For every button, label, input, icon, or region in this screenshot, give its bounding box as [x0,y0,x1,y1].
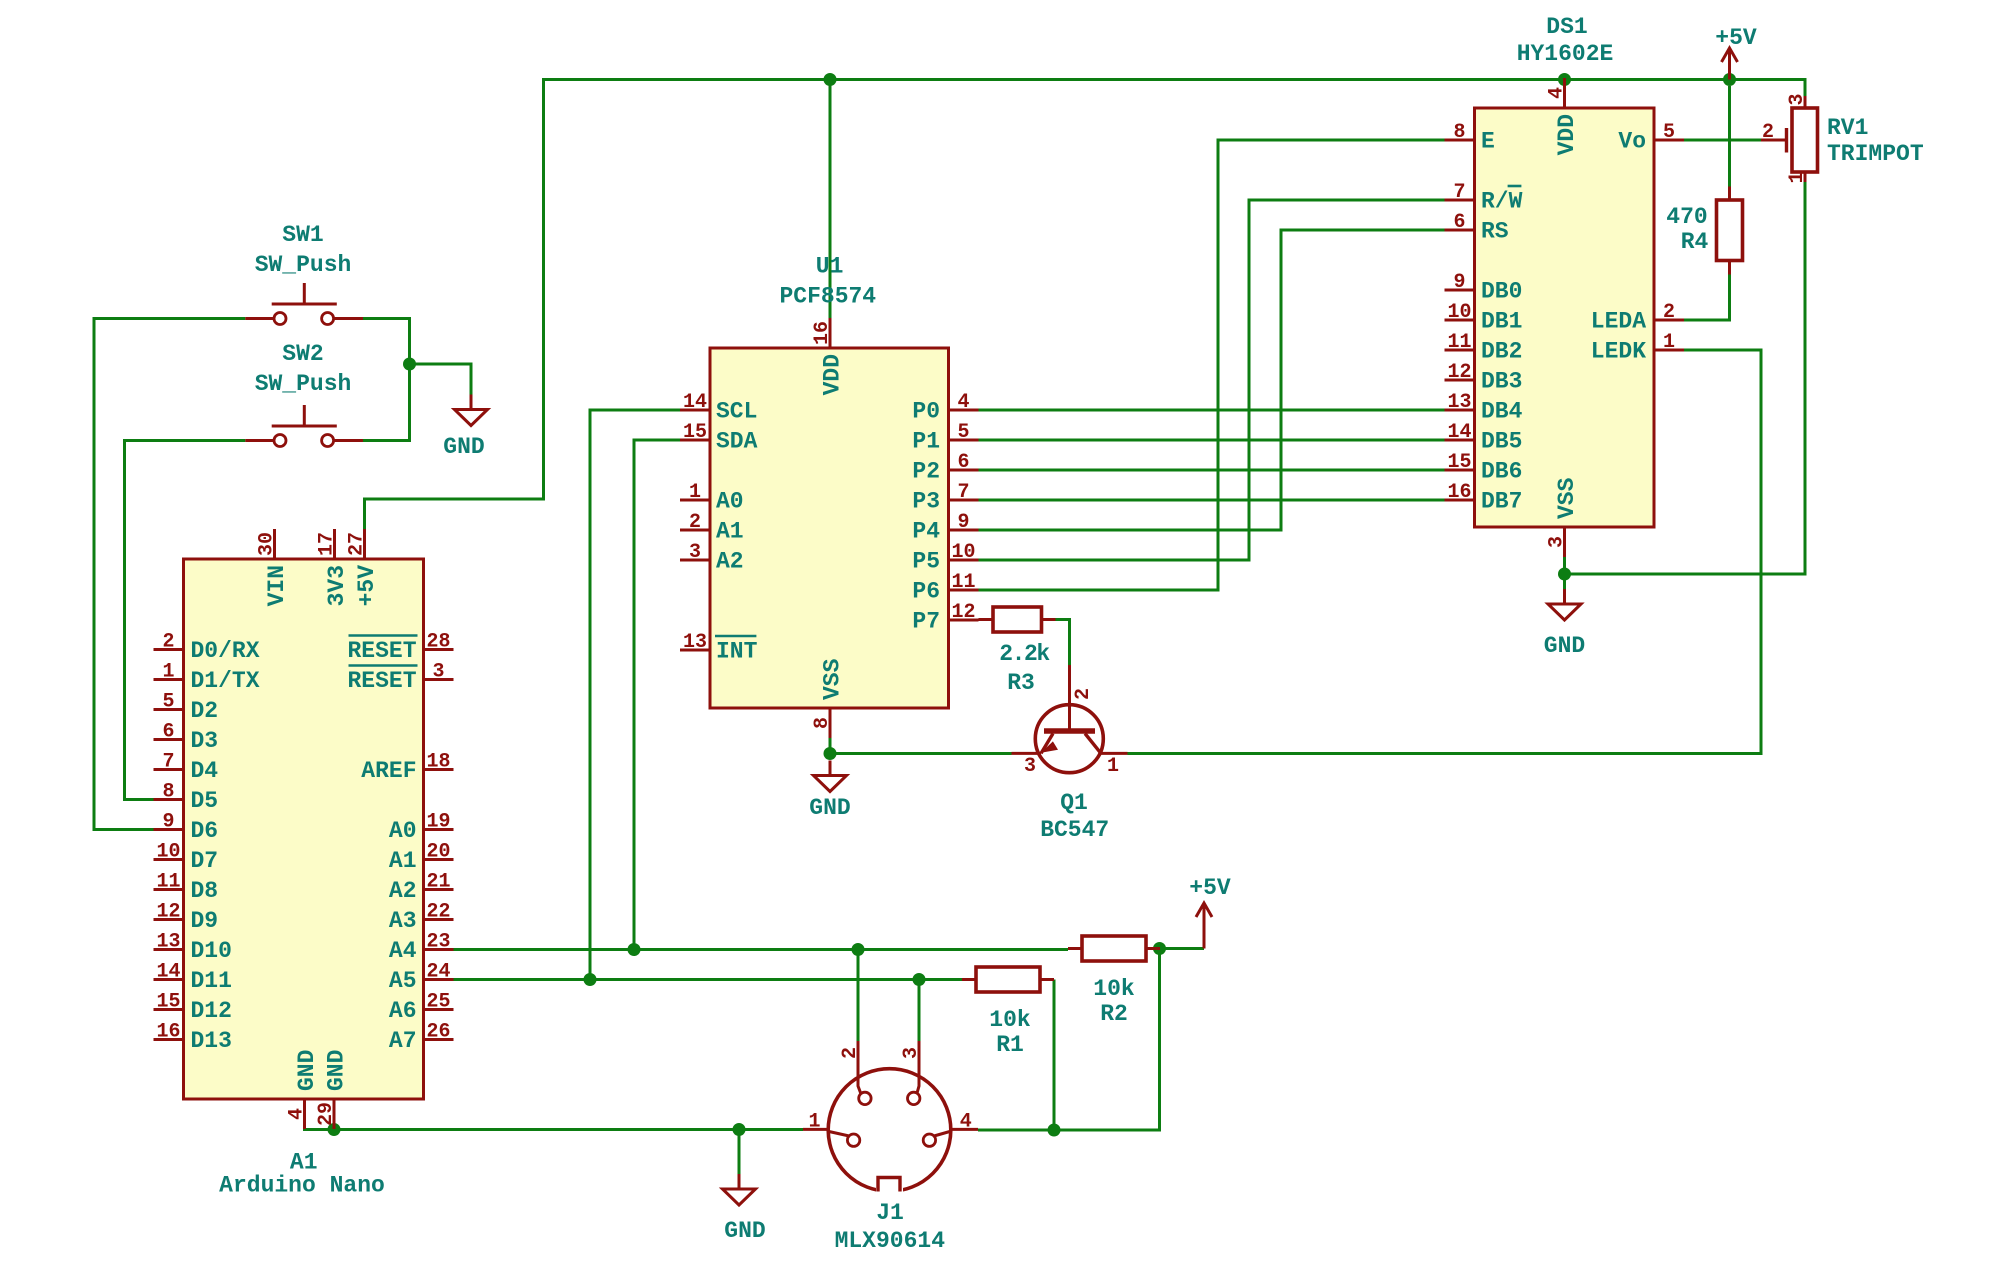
svg-text:3: 3 [1786,93,1809,105]
svg-text:SW2: SW2 [282,341,323,367]
wire J1 pin2 drop from A4 net [857,950,860,1042]
wire U1 VSS junction to Q1 emitter [830,752,1012,755]
resistor R4 470 [1666,187,1742,275]
svg-text:VDD: VDD [819,354,845,395]
DS1 pin 14 (DB5) [1445,439,1475,442]
A1 pin 5 (D2) [154,708,184,711]
wire SW2 right pin to GND junction [363,364,410,441]
svg-text:D2: D2 [191,698,219,724]
wire +5V rail from Arduino +5V pin up and across the top [365,80,1806,530]
A1 pin 14 (D11) [154,978,184,981]
svg-text:3: 3 [900,1047,923,1059]
svg-text:LEDA: LEDA [1591,309,1646,335]
svg-text:RV1: RV1 [1827,115,1868,141]
wire P5 to R/W [979,200,1445,560]
J1 pin 2 [858,1041,861,1094]
trimmer potentiometer RV1 TRIMPOT [1761,93,1924,183]
svg-text:GND: GND [294,1050,320,1091]
svg-text:A2: A2 [716,549,744,575]
+5V symbol bottom right [1203,903,1206,949]
svg-text:TRIMPOT: TRIMPOT [1827,141,1924,167]
svg-text:12: 12 [1447,361,1471,384]
svg-text:GND: GND [724,1218,765,1244]
DS1 pin 8 (E) [1445,139,1475,142]
svg-text:P6: P6 [912,579,940,605]
svg-text:D9: D9 [191,908,219,934]
svg-text:P3: P3 [912,489,940,515]
wire U1 SDA to A4 net [634,440,680,950]
svg-text:R2: R2 [1100,1001,1128,1027]
wire P4 to RS [979,230,1445,530]
A1 pin 18 (AREF) [424,768,454,771]
svg-text:2: 2 [1072,688,1095,700]
svg-text:7: 7 [1453,181,1465,204]
svg-text:VSS: VSS [1554,477,1580,519]
svg-text:VSS: VSS [819,658,845,700]
svg-text:D0/RX: D0/RX [191,638,260,664]
U1 pin 10 (P5) [949,559,979,562]
svg-text:2.2k: 2.2k [999,641,1050,667]
U1 pin 6 (P2) [949,469,979,472]
U1 pin 2 (A1) [680,529,710,532]
A1 pin 4 (GND) bottom [303,1099,306,1129]
U1 pin 7 (P3) [949,499,979,502]
svg-text:A1: A1 [389,848,417,874]
A1 pin 16 (D13) [154,1038,184,1041]
A1 pin 9 (D6) [154,828,184,831]
svg-text:4: 4 [1546,87,1569,99]
svg-text:D13: D13 [191,1028,232,1054]
svg-text:18: 18 [426,751,450,774]
ground symbol near switches [470,395,473,410]
svg-text:DB3: DB3 [1481,369,1522,395]
A1 pin 10 (D7) [154,858,184,861]
svg-text:27: 27 [346,532,369,556]
wire U1 VDD to +5V rail [829,80,832,319]
junction +5V symbol / RV1 branch [1723,73,1736,86]
svg-text:P4: P4 [912,519,940,545]
svg-text:29: 29 [315,1102,338,1126]
wire P6 to E [979,140,1445,590]
wire DS1 Vo to RV1 wiper [1684,139,1761,142]
wire P1 to DB5 [979,439,1445,442]
A1 pin 23 (A4) [424,948,454,951]
svg-text:DB5: DB5 [1481,429,1522,455]
svg-text:14: 14 [156,961,180,984]
wire DS1 VDD to +5V rail [1563,80,1566,87]
svg-text:5: 5 [1663,121,1675,144]
svg-text:SCL: SCL [716,399,757,425]
junction SDA on A4 net [628,943,641,956]
wire GND symbol tap below GND net [738,1130,741,1175]
svg-text:D3: D3 [191,728,219,754]
svg-text:2: 2 [689,511,701,534]
wire P0 to DB4 [979,409,1445,412]
svg-text:RESET: RESET [347,638,416,664]
svg-text:A0: A0 [389,818,417,844]
svg-text:INT: INT [716,639,758,665]
svg-text:D8: D8 [191,878,219,904]
ground symbol below DS1 VSS [1563,589,1566,604]
svg-text:AREF: AREF [361,758,416,784]
svg-text:12: 12 [156,901,180,924]
junction J1 pin2 on A4 net [852,943,865,956]
U1 pin 3 (A2) [680,559,710,562]
svg-text:DB6: DB6 [1481,459,1522,485]
svg-text:8: 8 [1453,121,1465,144]
svg-text:1: 1 [162,661,174,684]
svg-text:3: 3 [689,541,701,564]
svg-text:13: 13 [156,931,180,954]
svg-text:P0: P0 [912,399,940,425]
svg-text:VDD: VDD [1554,114,1580,155]
svg-text:A3: A3 [389,908,417,934]
svg-text:SW_Push: SW_Push [255,371,352,397]
wire DS1 VSS junction to GND symbol [1563,574,1566,589]
svg-text:GND: GND [809,795,850,821]
svg-text:8: 8 [162,781,174,804]
A1 pin 29 (GND) bottom [333,1099,336,1129]
A1 pin 11 (D8) [154,888,184,891]
A1 pin 22 (A3) [424,918,454,921]
junction U1 VDD / +5V rail [824,73,837,86]
A1 pin 19 (A0) [424,828,454,831]
DS1 pin 10 (DB1) [1445,319,1475,322]
DS1 pin 11 (DB2) [1445,349,1475,352]
U1 pin 4 (P0) [949,409,979,412]
svg-text:1: 1 [1107,755,1119,778]
svg-text:J1: J1 [876,1200,904,1226]
transistor Q1 BC547 NPN [1012,665,1128,843]
svg-text:VIN: VIN [264,565,290,606]
DS1 pin 16 (DB7) [1445,499,1475,502]
svg-text:4: 4 [960,1111,972,1134]
svg-text:P5: P5 [912,549,940,575]
svg-text:LEDK: LEDK [1591,339,1646,365]
svg-text:15: 15 [683,421,707,444]
svg-text:A4: A4 [389,938,417,964]
wire +5V rail down to R4 [1728,86,1731,187]
J1 pin 4 [950,1128,978,1131]
svg-text:GND: GND [323,1050,349,1091]
DS1 pin 2 (LEDA) [1654,319,1684,322]
junction Arduino GND pins [328,1123,341,1136]
junction R1 on J1 pin4 net [1048,1124,1061,1137]
junction SW1/SW2 to GND [403,358,416,371]
svg-text:4: 4 [957,391,969,414]
wire RV1 pin1 down to DS1 VSS net [1565,182,1806,574]
svg-text:30: 30 [256,532,279,556]
svg-text:12: 12 [951,601,975,624]
wire U1 VSS down to junction [829,738,832,754]
wire SW1 left pin to Arduino D6 [94,319,245,830]
svg-text:A6: A6 [389,998,417,1024]
svg-text:D10: D10 [191,938,232,964]
svg-text:22: 22 [426,901,450,924]
DS1 pin 3 (VSS) bottom [1563,527,1566,557]
DS1 pin 1 (LEDK) [1654,349,1684,352]
svg-text:10: 10 [951,541,975,564]
svg-text:HY1602E: HY1602E [1517,41,1614,67]
svg-text:SW_Push: SW_Push [255,252,352,278]
junction J1 pin3 on A5 net [913,973,926,986]
svg-text:GND: GND [1544,633,1585,659]
svg-text:16: 16 [1447,481,1471,504]
svg-text:11: 11 [951,571,975,594]
svg-text:3V3: 3V3 [324,565,350,606]
svg-text:11: 11 [1447,331,1471,354]
svg-text:D6: D6 [191,818,219,844]
A1 pin 25 (A6) [424,1008,454,1011]
svg-text:9: 9 [957,511,969,534]
svg-text:2: 2 [1663,301,1675,324]
svg-text:16: 16 [156,1021,180,1044]
svg-text:RESET: RESET [347,668,416,694]
A1 pin 7 (D4) [154,768,184,771]
svg-text:P2: P2 [912,459,940,485]
junction R2 / +5V / J1 pin4 net [1153,942,1166,955]
DS1 pin 6 (RS) [1445,229,1475,232]
junction GND symbol on GND net [733,1123,746,1136]
resistor R1 10k [962,967,1054,1058]
svg-text:D12: D12 [191,998,232,1024]
svg-text:D11: D11 [191,968,232,994]
U1 pin 15 (SDA) [680,439,710,442]
A1 pin 13 (D10) [154,948,184,951]
wire SW2 left pin to Arduino D5 [125,441,246,800]
U1 pin 14 (SCL) [680,409,710,412]
svg-text:15: 15 [156,991,180,1014]
svg-text:DB2: DB2 [1481,339,1522,365]
junction DS1 VDD / +5V rail [1558,73,1571,86]
A1 pin 20 (A1) [424,858,454,861]
svg-text:MLX90614: MLX90614 [835,1228,946,1254]
svg-text:2: 2 [162,631,174,654]
DS1 pin 15 (DB6) [1445,469,1475,472]
svg-text:14: 14 [1447,421,1471,444]
svg-text:R3: R3 [1007,670,1035,696]
svg-text:25: 25 [426,991,450,1014]
svg-text:DB1: DB1 [1481,309,1522,335]
DS1 pin 12 (DB3) [1445,379,1475,382]
A1 pin 12 (D9) [154,918,184,921]
svg-text:10k: 10k [1093,976,1135,1002]
A1 pin 3 (RESET) [424,678,454,681]
resistor R3 2.2k [979,607,1056,696]
A1 pin 8 (D5) [154,798,184,801]
svg-text:2: 2 [1762,121,1774,144]
svg-text:+5V: +5V [1715,25,1757,51]
svg-text:6: 6 [162,721,174,744]
svg-text:R4: R4 [1681,229,1709,255]
svg-text:A2: A2 [389,878,417,904]
svg-text:23: 23 [426,931,450,954]
DS1 pin 7 (R/W) [1445,199,1475,202]
I/O expander U1 PCF8574 [680,254,979,739]
wire Arduino GND pins to J1 pin1 (GND net) [305,1099,335,1130]
A1 pin 6 (D3) [154,738,184,741]
wire R4 bottom to DS1 LEDA [1684,275,1730,321]
J1 pin 3 [917,1041,919,1094]
svg-text:24: 24 [426,961,450,984]
A1 pin 1 (D1/TX) [154,678,184,681]
U1 pin 1 (A0) [680,499,710,502]
svg-text:SDA: SDA [716,429,758,455]
svg-text:17: 17 [316,532,339,556]
svg-text:3: 3 [432,661,444,684]
+5V symbol top [1728,48,1731,80]
ground symbol below U1 VSS [829,761,832,776]
junction SCL on A5 net [584,973,597,986]
svg-text:A7: A7 [389,1028,417,1054]
svg-text:11: 11 [156,871,180,894]
svg-text:E: E [1481,129,1495,155]
svg-text:PCF8574: PCF8574 [779,284,876,310]
svg-text:10: 10 [156,841,180,864]
svg-text:D5: D5 [191,788,219,814]
svg-text:D4: D4 [191,758,219,784]
DS1 pin 4 (VDD) top [1563,78,1566,108]
svg-text:+5V: +5V [1189,875,1231,901]
svg-text:1: 1 [689,481,701,504]
svg-text:DB7: DB7 [1481,489,1522,515]
svg-text:10k: 10k [989,1007,1031,1033]
svg-text:D7: D7 [191,848,219,874]
resistor R2 10k [1068,936,1160,1027]
wire R1 right down to J1 pin4 net [1053,980,1056,1131]
svg-text:RS: RS [1481,219,1509,245]
wire U1 SCL to A5 net [590,410,680,980]
svg-text:R1: R1 [996,1032,1024,1058]
svg-text:14: 14 [683,391,707,414]
svg-text:R/W: R/W [1481,189,1523,215]
wire SW junction to GND symbol [410,364,472,395]
svg-text:6: 6 [1453,211,1465,234]
svg-text:U1: U1 [816,254,844,280]
svg-text:3: 3 [1024,755,1036,778]
A1 pin 24 (A5) [424,978,454,981]
connector J1 MLX90614 (DIN socket) [803,1041,978,1254]
RV1 pin 2 wiper [1761,139,1786,142]
svg-text:1: 1 [808,1111,820,1134]
wire SW1 right pin to GND junction [363,319,410,365]
wire Q1 collector to DS1 LEDK [1128,350,1762,754]
A1 pin 30 (VIN) top [273,529,276,559]
svg-text:GND: GND [443,434,484,460]
svg-text:BC547: BC547 [1040,817,1109,843]
svg-text:Vo: Vo [1618,129,1646,155]
svg-text:9: 9 [162,811,174,834]
svg-text:SW1: SW1 [282,222,323,248]
svg-text:20: 20 [426,841,450,864]
svg-text:5: 5 [162,691,174,714]
svg-text:Q1: Q1 [1060,790,1088,816]
A1 pin 27 (+5V) top [363,529,366,559]
wire P3 to DB7 [979,499,1445,502]
svg-text:DB4: DB4 [1481,399,1523,425]
wire R3 to Q1 base [1056,620,1070,666]
wire P2 to DB6 [979,469,1445,472]
svg-text:A5: A5 [389,968,417,994]
U1 pin 13 (INT) [680,649,710,652]
svg-text:DB0: DB0 [1481,279,1522,305]
Arduino Nano A1 [154,529,454,1199]
svg-text:Arduino Nano: Arduino Nano [219,1173,385,1199]
svg-text:5: 5 [957,421,969,444]
svg-text:DS1: DS1 [1546,14,1587,40]
A1 pin 21 (A2) [424,888,454,891]
svg-text:10: 10 [1447,301,1471,324]
A1 pin 15 (D12) [154,1008,184,1011]
svg-text:7: 7 [162,751,174,774]
DS1 pin 5 (Vo) [1654,139,1684,142]
svg-text:P1: P1 [912,429,940,455]
DS1 pin 13 (DB4) [1445,409,1475,412]
wire A4 net: Arduino A4 to R2 [454,948,1069,951]
svg-text:3: 3 [1546,536,1569,548]
ground symbol on bottom GND net [738,1174,741,1189]
svg-text:+5V: +5V [354,565,380,607]
svg-text:A0: A0 [716,489,744,515]
A1 pin 2 (D0/RX) [154,648,184,651]
DS1 pin 9 (DB0) [1445,289,1475,292]
junction U1 VSS / Q1 emitter / GND [824,747,837,760]
svg-text:9: 9 [1453,271,1465,294]
J1 pin 1 [803,1128,829,1131]
svg-text:7: 7 [957,481,969,504]
svg-text:D1/TX: D1/TX [191,668,260,694]
wire R2 right to +5V corner and down to J1 pin4 net [1160,947,1205,950]
U1 pin 8 (VSS) bottom [829,708,832,738]
U1 pin 12 (P7) [949,619,979,622]
svg-text:8: 8 [811,717,834,729]
svg-text:13: 13 [683,631,707,654]
svg-text:26: 26 [426,1021,450,1044]
A1 pin 17 (3V3) top [333,529,336,559]
wire DS1 VSS to junction [1563,557,1566,574]
svg-text:6: 6 [957,451,969,474]
svg-text:1: 1 [1786,171,1809,183]
svg-text:2: 2 [839,1047,862,1059]
svg-text:1: 1 [1663,331,1675,354]
U1 pin 11 (P6) [949,589,979,592]
svg-text:A1: A1 [716,519,744,545]
svg-text:16: 16 [811,321,834,345]
wire J1 pin3 drop from A5 net [918,980,921,1042]
U1 pin 5 (P1) [949,439,979,442]
svg-text:470: 470 [1666,204,1707,230]
svg-text:15: 15 [1447,451,1471,474]
switch SW2 SW_Push [245,341,363,447]
A1 pin 28 (RESET) [424,648,454,651]
svg-text:21: 21 [426,871,450,894]
A1 pin 26 (A7) [424,1038,454,1041]
wire A5 net: Arduino A5 to R1 [454,978,963,981]
LCD display DS1 HY1602E [1445,14,1685,557]
svg-text:4: 4 [286,1108,309,1120]
svg-text:19: 19 [426,811,450,834]
switch SW1 SW_Push [245,222,363,325]
svg-text:13: 13 [1447,391,1471,414]
U1 pin 9 (P4) [949,529,979,532]
U1 pin 16 (VDD) top [829,318,832,348]
junction DS1 VSS / RV1 / GND [1558,568,1571,581]
svg-text:P7: P7 [912,609,940,635]
svg-text:28: 28 [426,631,450,654]
